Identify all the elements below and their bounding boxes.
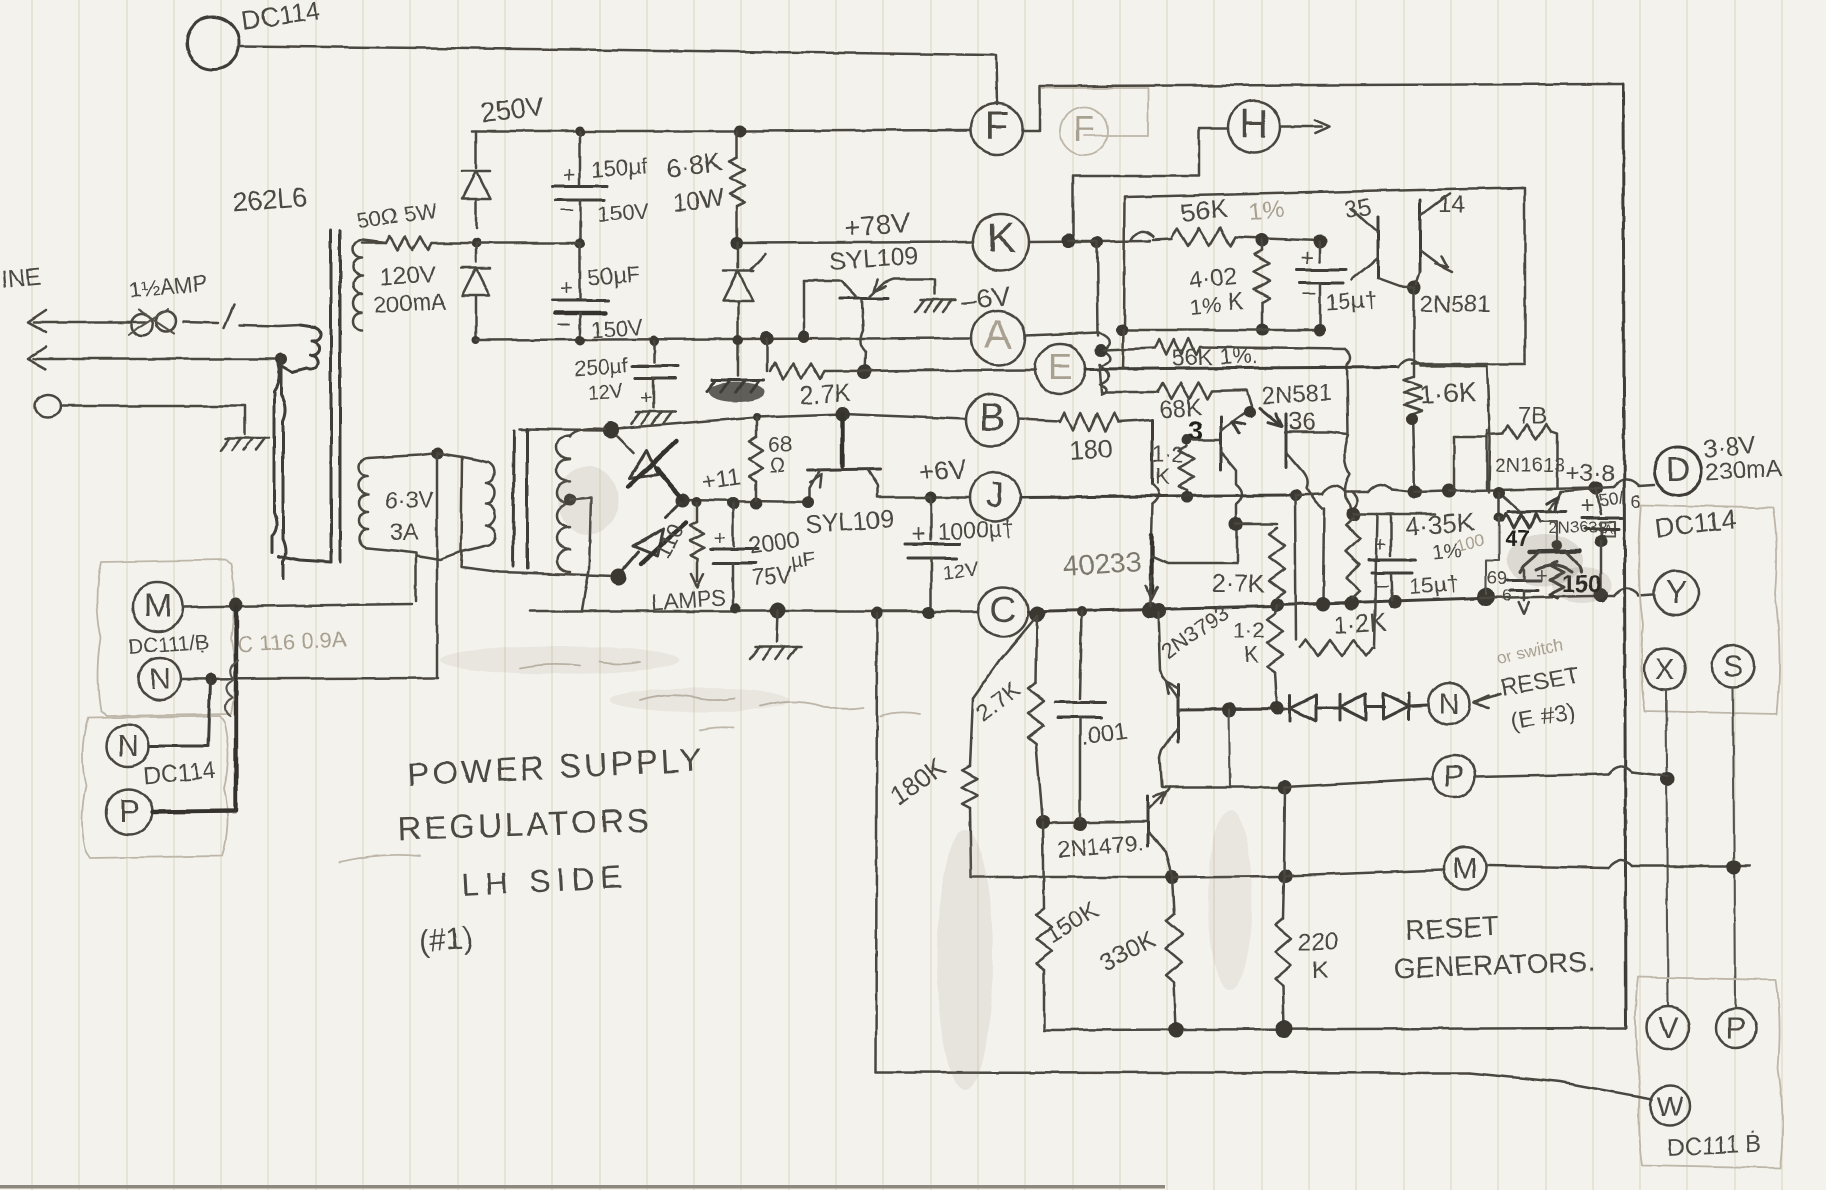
rectifier top wire [520,429,604,430]
K line right of K circle [1029,241,1150,242]
svg-text:µF: µF [790,548,817,573]
hop at outer box on J/D line [1596,487,1614,488]
node E [1035,344,1085,394]
svg-text:W: W [1657,1091,1684,1122]
svg-text:C: C [990,589,1016,630]
wire cap to Y bus arrow [1523,590,1526,600]
ghost node F (erased) [1060,107,1108,155]
2.7K lower resistor [1036,616,1037,682]
bottom bus [1044,1028,1626,1030]
svg-text:RESET: RESET [1405,910,1500,946]
line wire 2 [34,358,278,361]
T2 right winding [570,429,604,437]
svg-text:14: 14 [1438,191,1465,218]
P wire heavy [152,607,236,812]
T1 secondary 120V winding [353,240,362,330]
wire 6.3V to T2 [368,453,437,458]
N lower wire [150,680,210,746]
svg-text:1·2: 1·2 [1233,618,1265,643]
capacitor 250uf 12V [653,341,656,362]
node D [1638,485,1654,486]
wire 6.3V bottom to M line [368,548,416,601]
svg-text:220: 220 [1298,929,1338,956]
capacitor 1000uf 12V [930,497,933,540]
wire N up to 6.3V [436,453,439,678]
svg-text:A: A [985,313,1012,357]
capacitor 50/6 [1596,488,1601,514]
svg-text:X: X [1655,653,1675,686]
svg-text:(#1): (#1) [418,921,474,959]
wire to ground [61,406,245,434]
brace on box edge [225,660,238,716]
svg-text:INE: INE [0,264,42,294]
svg-text:3A: 3A [390,519,419,545]
terminal small circle left [35,395,61,417]
node X [1644,648,1686,690]
transformer T2 core [513,431,514,566]
svg-text:6: 6 [1502,586,1511,605]
wavy vertical from 36-box to 514 [1344,434,1352,512]
svg-text:1·6K: 1·6K [1419,377,1478,410]
node V [1647,1007,1689,1049]
+11 bus [683,500,810,502]
M line right with hop [1487,866,1608,868]
wire winding to 50ohm [362,240,386,243]
svg-text:69: 69 [1487,568,1507,588]
J to +3.8 wire [1449,488,1594,491]
Q36 emitter down [1286,452,1322,508]
N wire [182,678,438,679]
node A [971,311,1025,365]
wire switch to primary [240,325,300,326]
node S [1712,645,1754,687]
node M left [133,582,183,632]
svg-text:K: K [987,214,1015,261]
X vertical line [1666,690,1668,1006]
wire 68K-bend to Q3 collector [1244,406,1256,418]
svg-text:2N581: 2N581 [1261,379,1333,410]
svg-text:P: P [118,793,139,829]
bus 525 to 2.7K [1236,523,1277,526]
Q3 emitter hop over J to 525-bus [1236,484,1242,520]
svg-text:Ω: Ω [770,455,785,477]
svg-text:75V: 75V [751,561,794,590]
svg-text:K: K [1226,288,1244,316]
resistor 150 dark [1550,562,1564,598]
svg-text:12V: 12V [587,381,625,405]
box DC114 left [82,716,228,858]
N line heavy [1180,709,1285,710]
J line left [932,496,970,499]
zener diode [737,243,740,268]
left tall vertical from C [876,613,877,1072]
svg-text:M: M [1453,852,1478,885]
svg-text:1000µ†: 1000µ† [937,515,1015,545]
capacitor 50uF 150V [579,243,582,298]
N line base link [1178,710,1180,713]
resistor 56K 1% on upper branch [1104,348,1155,350]
node Y [1654,571,1698,615]
faint erased handwriting [520,662,640,668]
node P mid [1433,755,1475,797]
node F [971,103,1023,155]
E line [824,370,1036,371]
svg-text:1·2K: 1·2K [1332,608,1387,640]
wire 250V bus [472,130,971,131]
svg-text:56K: 56K [1179,193,1229,228]
collector junction down to 1.6K [1407,280,1421,294]
svg-text:B: B [979,397,1004,439]
svg-text:6·3V: 6·3V [385,487,434,513]
svg-text:150µf: 150µf [590,153,648,183]
wire T2 left bottom to M [416,552,461,560]
svg-text:+: + [714,528,726,550]
ground under terminal [225,437,269,440]
B line left [611,414,966,429]
S vertical line [1733,687,1735,1006]
switch [184,322,218,323]
ghost box (erased) [1042,88,1148,136]
1.2K right vertical [1374,514,1377,648]
left edge of cell down [1123,330,1124,368]
svg-text:230mA: 230mA [1705,455,1782,486]
C bus left [530,610,978,613]
C bus right [1028,606,1275,612]
node J [970,472,1020,522]
svg-text:N: N [1438,688,1460,721]
svg-text:Y: Y [1665,574,1686,610]
Q1 base down to E-line [860,300,865,370]
transistor Q3 [1220,416,1223,470]
resistor 1.6K [1404,377,1422,414]
transformer T1 core [330,231,333,562]
box 7B [1453,437,1456,488]
diode D4 bottom [666,502,681,517]
svg-text:6: 6 [1631,492,1641,512]
svg-text:–: – [560,196,573,221]
box DC111B left [97,560,235,716]
E right end down to J line [1487,366,1490,492]
svg-text:150V: 150V [597,198,650,227]
wire F to right and up to top-right bus [1023,84,1623,131]
2N1479 base wire [1043,822,1146,823]
C bus right heavy blob [1477,588,1495,606]
svg-text:+3·8: +3·8 [1566,460,1615,487]
svg-text:1%: 1% [1188,292,1222,320]
box around 56K 4.02K [1068,240,1097,243]
2.7K resistor on E line [766,338,769,371]
svg-text:+: + [560,275,573,300]
svg-text:N: N [149,663,171,696]
svg-text:7B: 7B [1518,403,1547,430]
resistor 1.2K vertical below C [1275,605,1277,614]
diode N3 [1366,706,1384,709]
svg-text:J: J [986,474,1004,515]
node W [1650,1086,1690,1126]
J line right [1020,496,1160,497]
P line right with hop [1475,774,1608,777]
T1 primary bottom wires [279,556,331,562]
resistor 4.35K squiggle [1346,518,1360,598]
svg-text:M: M [144,587,172,625]
svg-text:15µ†: 15µ† [1325,286,1378,315]
svg-text:N: N [117,730,139,763]
junction 68ohm top [752,413,760,421]
svg-text:K: K [1155,464,1170,489]
svg-text:50µF: 50µF [586,260,641,291]
hop on K line [1131,232,1153,241]
capacitor .001 [1080,612,1082,698]
svg-text:H: H [1240,102,1269,146]
T2 bottom wire [461,552,614,576]
resistor 68 ohm [755,417,758,437]
B heavy stem to Q2 [841,414,845,466]
Q36/J crossing down to C bus [1323,508,1324,602]
ground below C bus [777,610,778,642]
svg-text:40233: 40233 [1062,546,1142,582]
E line hop over 1.6K [1398,359,1420,367]
resistor 180K [970,698,973,766]
svg-text:15µ†: 15µ† [1409,571,1460,599]
resistor 47 [1498,493,1501,518]
bottom wire of 4.02K cell [1122,329,1320,332]
node B [966,394,1018,446]
svg-text:35: 35 [1343,193,1373,223]
transistor Q14 2N581 [1419,200,1422,272]
T2 center tap [564,494,576,506]
ground under 250uf [636,411,676,414]
capacitor 15uf right [1390,514,1393,556]
transistor 2N1613 [1508,511,1566,512]
junction D2 to A-line [472,336,480,344]
svg-text:F: F [985,104,1009,148]
svg-text:–: – [558,310,571,335]
capacitor 15uf [1319,241,1322,262]
wire 514 to cap [1353,513,1435,516]
T1 primary winding heavy [272,325,321,552]
resistor 68K on B-branch [1104,391,1158,394]
svg-text:120V: 120V [379,261,436,291]
ghost box DC114 right [1638,505,1779,714]
M line [971,876,1170,879]
svg-text:–: – [1302,279,1316,306]
svg-text:F: F [1073,108,1095,149]
line input arrows [28,310,46,332]
wire K-junction down to A-line [1097,242,1098,336]
base link Q3 [1187,439,1219,442]
svg-text:2·7K: 2·7K [1212,570,1265,598]
180K chain diagonal [973,616,1037,698]
transistor Q2 SYL109 [808,469,880,470]
T2 left winding [461,457,462,552]
resistor 6.8K 10W [736,131,739,158]
resistor 2.7K mid [1269,528,1285,598]
fuse 1.5 AMP [131,314,153,336]
wire H to K-line junction [1073,128,1228,237]
capacitor 2000uF 75V [732,503,735,546]
smudge cluster [1507,534,1583,586]
svg-text:+11: +11 [700,464,742,496]
svg-text:50/: 50/ [1598,488,1626,511]
capacitor 69/6 small [1523,570,1526,578]
330K leg [1172,877,1174,914]
svg-text:–: – [637,353,649,375]
transistor 2N3638A [1530,551,1580,552]
reset arrow [1474,696,1489,709]
C/Y hop at outer box [1601,595,1614,598]
ghost box DC111B right [1635,977,1782,1168]
node K [973,214,1029,270]
resistor 7B [1487,433,1503,434]
svg-text:–: – [1376,572,1389,597]
svg-text:180: 180 [1068,433,1113,466]
zener ground heavy [712,379,764,382]
diode N1 [1285,708,1291,711]
svg-text:D: D [1666,451,1691,489]
K line [737,242,973,243]
T1 secondary 6.3V winding [359,458,368,548]
resistor 4.02K 1% [1261,240,1264,250]
A line right of A [1025,333,1099,336]
resistor 110 lamps [696,503,699,522]
node C [978,587,1028,637]
node M mid [1444,847,1486,889]
wire H arrow out [1280,126,1322,129]
P line [1162,786,1285,789]
svg-text:68: 68 [768,432,792,457]
svg-text:+: + [1374,532,1387,557]
wire N dot down to P line [1229,710,1230,786]
svg-text:+: + [1580,493,1594,520]
bottom rail to W [876,1072,1470,1073]
svg-text:K: K [1244,642,1259,667]
cluster connect wires [1486,518,1499,594]
svg-text:+: + [641,387,653,409]
resistor 56K [1153,239,1172,240]
A line [476,338,971,340]
resistor 1.2K horizontal [1300,640,1372,656]
vertical J to 1.2K left [1295,495,1296,640]
diode D1 top [475,131,478,168]
svg-text:DC111 Ḃ: DC111 Ḃ [1667,1130,1762,1162]
diode N2 [1316,707,1340,710]
svg-text:P: P [1444,760,1464,793]
svg-text:K: K [1312,957,1328,984]
node P left [106,789,152,835]
transistor 40233 [1150,536,1154,594]
terminal DC114 top-left [187,17,239,69]
capacitor 150uf 150V [579,131,582,184]
transistor Q36 [1285,414,1288,468]
svg-text:+6V: +6V [917,453,968,488]
A to brace split [1099,333,1110,394]
node N left upper [139,658,181,700]
diode D2 [475,243,478,262]
svg-text:2N581: 2N581 [1420,291,1491,318]
svg-text:S: S [1723,650,1743,683]
svg-text:2.7K: 2.7K [799,379,852,410]
svg-text:+: + [563,162,576,187]
svg-text:E: E [1048,346,1072,387]
outer box right edge [1623,84,1626,1028]
svg-text:P: P [1726,1012,1746,1045]
220K leg [1284,787,1285,874]
B vertical to 40233 with hop at J [1151,420,1154,484]
wire top bus from DC114 to F [239,46,997,104]
lamps arrow [696,558,699,582]
node P bottom right [1716,1008,1756,1048]
150K leg [1043,822,1044,908]
svg-text:1%: 1% [1248,195,1285,225]
smudge center [937,830,993,1090]
B line right: resistor 180 [1018,419,1060,421]
box around pair [1412,188,1525,364]
E line right [1085,367,1398,369]
J line hops and right end [1295,494,1322,495]
56K1% branch drop to 36-box [1345,349,1351,434]
transistor Q35 [1377,216,1380,278]
svg-text:200mA: 200mA [373,288,448,318]
ground for Q1 [920,299,956,302]
M wire [184,604,412,607]
svg-text:2N1613: 2N1613 [1495,455,1565,477]
svg-text:V: V [1658,1012,1678,1045]
diode D3 top [617,436,634,453]
resistor 50ohm 5W [362,242,386,245]
line wire 1 with fuse and switch [34,321,146,324]
junction 150uf/50uf [575,238,585,248]
svg-text:250µf: 250µf [574,354,629,381]
node H [1228,101,1280,153]
node N mid [1428,683,1470,725]
68K branch from brace [1100,364,1104,392]
svg-text:+: + [1300,245,1314,272]
node N left lower [107,725,149,767]
